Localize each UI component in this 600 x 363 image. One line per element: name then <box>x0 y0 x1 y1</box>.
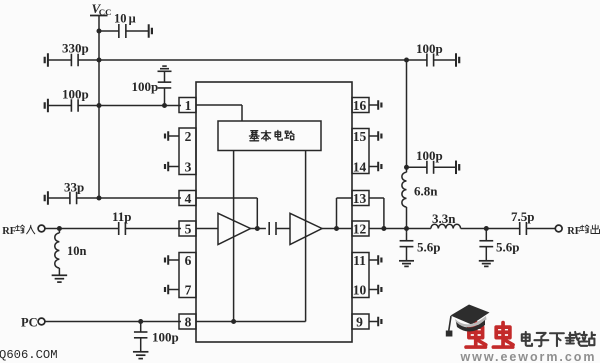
svg-text:10: 10 <box>114 11 127 25</box>
svg-text:9: 9 <box>356 314 363 329</box>
svg-text:3.3n: 3.3n <box>432 211 456 226</box>
svg-text:15: 15 <box>353 129 367 144</box>
svg-text:Q606.COM: Q606.COM <box>0 348 58 362</box>
svg-text:6.8n: 6.8n <box>414 184 438 199</box>
svg-text:www.eeworm.com: www.eeworm.com <box>460 350 597 363</box>
svg-text:4: 4 <box>185 191 192 206</box>
svg-text:8: 8 <box>185 314 192 329</box>
svg-text:10n: 10n <box>67 244 87 258</box>
svg-text:5.6p: 5.6p <box>417 240 440 255</box>
svg-text:11p: 11p <box>112 209 132 224</box>
svg-text:10: 10 <box>353 282 367 297</box>
svg-text:16: 16 <box>353 98 367 113</box>
svg-text:1: 1 <box>185 98 192 113</box>
svg-text:7: 7 <box>185 282 192 297</box>
svg-text:2: 2 <box>185 129 192 144</box>
svg-text:330p: 330p <box>62 41 89 56</box>
svg-text:PC: PC <box>21 316 38 330</box>
svg-text:RF: RF <box>567 226 581 237</box>
svg-text:100p: 100p <box>132 79 159 94</box>
svg-text:33p: 33p <box>64 180 84 195</box>
svg-text:100p: 100p <box>152 330 179 345</box>
svg-text:CC: CC <box>99 7 112 17</box>
svg-text:5.6p: 5.6p <box>496 240 519 255</box>
svg-text:μ: μ <box>129 11 136 25</box>
svg-text:RF: RF <box>2 226 16 237</box>
svg-text:14: 14 <box>353 159 367 174</box>
svg-text:13: 13 <box>353 191 367 206</box>
svg-text:100p: 100p <box>416 148 443 163</box>
svg-text:100p: 100p <box>62 87 89 102</box>
svg-text:5: 5 <box>185 221 192 236</box>
svg-text:3: 3 <box>185 159 192 174</box>
svg-text:6: 6 <box>185 253 192 268</box>
svg-text:100p: 100p <box>416 41 443 56</box>
svg-text:7.5p: 7.5p <box>511 209 534 224</box>
svg-text:12: 12 <box>353 221 367 236</box>
svg-text:11: 11 <box>353 253 366 268</box>
